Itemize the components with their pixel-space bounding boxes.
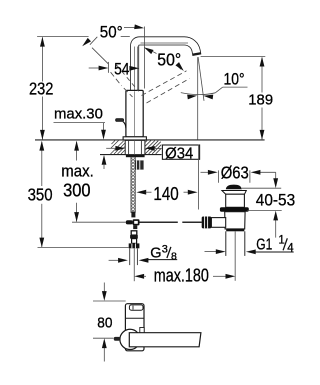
svg-text:40-53: 40-53	[256, 191, 295, 209]
svg-text:189: 189	[248, 91, 273, 108]
svg-text:300: 300	[63, 180, 91, 200]
deck bottom line	[100, 154, 162, 156]
svg-text:80: 80	[97, 315, 112, 332]
pop-up knob dome	[226, 185, 242, 190]
dimension max.180	[134, 274, 144, 279]
knob base disk	[222, 191, 246, 195]
tailpipe centre line	[234, 231, 236, 280]
plan-view lever pivot circle	[120, 329, 140, 349]
plan-view body split line	[126, 317, 144, 319]
plan-view body	[125, 304, 144, 351]
svg-text:350: 350	[28, 185, 53, 205]
deck hatching	[111, 140, 162, 154]
svg-text:max.180: max.180	[154, 265, 209, 285]
upper body of drain	[226, 194, 245, 207]
svg-text:140: 140	[153, 183, 178, 204]
dimension max.300	[72, 142, 126, 222]
dimension 80	[93, 283, 126, 362]
dimension Ø34 with boxed label	[106, 147, 116, 149]
rotated spout position (left, dashed)	[92, 48, 139, 97]
angular dimension 50 deg (inner)	[143, 45, 154, 54]
svg-text:10°: 10°	[224, 70, 245, 88]
side port tube	[211, 218, 225, 228]
svg-text:Ø34: Ø34	[165, 146, 193, 163]
lever handle nub (seen end-on)	[116, 119, 126, 129]
threaded pop-up rod (crosshatched)	[131, 157, 135, 212]
dimension 232	[37, 37, 130, 140]
rod dark end above joint	[131, 212, 135, 218]
plan-view lever end nub	[114, 337, 120, 341]
plan-view lever bar	[129, 333, 201, 347]
faucet spout tube (front view)	[135, 41, 197, 92]
svg-text:G1: G1	[256, 236, 272, 253]
vertical 50deg reference line	[144, 27, 146, 89]
svg-text:232: 232	[29, 79, 53, 99]
mounting nut	[133, 160, 143, 169]
dimension Ø63	[201, 170, 276, 182]
svg-text:50°: 50°	[100, 24, 123, 42]
threaded shank through deck	[125, 140, 145, 154]
svg-text:max.: max.	[61, 162, 94, 181]
svg-text:54: 54	[114, 60, 129, 79]
svg-text:max.30: max.30	[54, 107, 103, 123]
dimension 140	[136, 190, 146, 195]
spout-outlet vertical extension line	[197, 57, 199, 139]
drain flange	[220, 207, 249, 211]
svg-text:Ø63: Ø63	[221, 163, 249, 183]
side port knurled adjuster	[202, 217, 212, 229]
plan-view spout section	[129, 305, 143, 310]
rotated spout position (right, dashed)	[142, 71, 190, 103]
lower drain body	[225, 212, 245, 229]
mounting washer below deck	[126, 155, 145, 157]
ball joint of pop-up linkage	[126, 219, 140, 229]
dimension 189	[201, 56, 266, 139]
plan-view cartridge step	[140, 328, 144, 333]
outlet stream line at 10 deg	[198, 57, 204, 101]
svg-text:3: 3	[162, 243, 168, 255]
horizontal pop-up rod to drain	[140, 221, 178, 223]
faucet body	[126, 90, 143, 136]
drain pop-up waste assembly	[202, 185, 249, 281]
dimension 54	[89, 67, 100, 69]
body centre line	[133, 91, 135, 136]
supply pipe walls	[129, 248, 131, 265]
svg-text:1: 1	[278, 234, 284, 246]
dimension 350	[38, 142, 129, 248]
spout inner shading lines	[135, 43, 188, 90]
supply pipe centre line	[133, 248, 135, 281]
svg-text:8: 8	[171, 250, 177, 262]
angular dimension 10 deg	[181, 93, 216, 95]
supply hose connector stack	[129, 231, 140, 249]
deck top line	[35, 139, 265, 141]
svg-text:4: 4	[287, 242, 294, 254]
washer band under body	[226, 229, 244, 232]
dimension 40-53	[242, 172, 282, 237]
tailpipe walls	[225, 231, 227, 256]
base flange	[123, 137, 146, 140]
